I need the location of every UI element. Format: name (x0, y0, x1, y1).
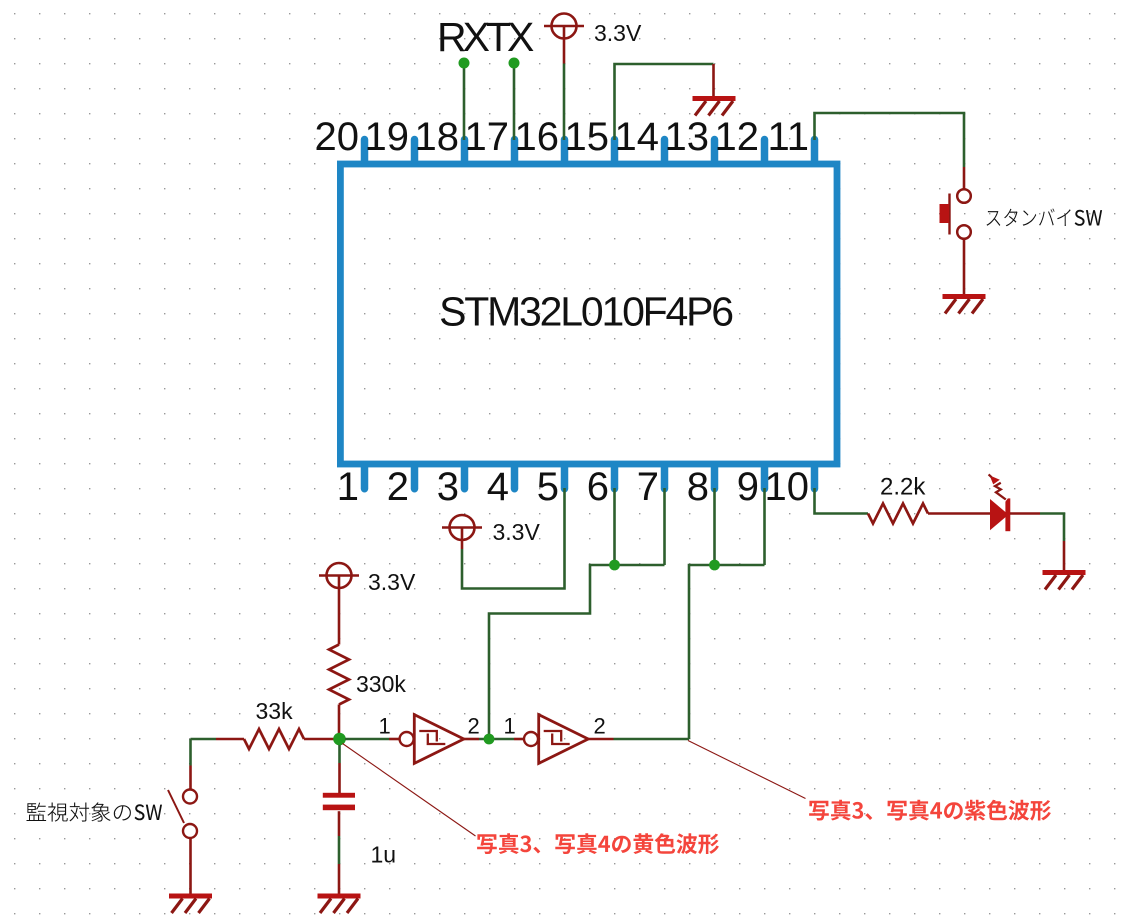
resistor R2 33k (244, 729, 304, 749)
wire ground symbol lead (top right) (712, 64, 715, 96)
svg-text:1u: 1u (371, 842, 397, 868)
junction pins 6-7 (609, 560, 620, 571)
IC U1 pin 13 (top) (711, 140, 719, 162)
junction node B (between gates) (484, 734, 495, 745)
wire C1 to ground (338, 811, 341, 836)
switch S1 monitored switch (168, 790, 197, 839)
ground G3 (LED) (1043, 570, 1086, 590)
svg-text:33k: 33k (256, 698, 294, 724)
svg-text:16: 16 (515, 115, 560, 159)
wire node B to gate2 input (514, 738, 524, 741)
resistor R1 330k (329, 645, 349, 705)
wire 3.3V to pin 5 (462, 488, 565, 589)
wire pin 15 to ground (up and right) (615, 64, 714, 140)
svg-text:2.2k: 2.2k (880, 474, 926, 501)
wire pin 8 down (713, 488, 716, 565)
inverter gate U2B (Schmitt trigger) (524, 715, 588, 764)
power 3.3V supply symbol P3 (to R1 330k) (319, 563, 359, 588)
wire pin 10 to resistor R3 (815, 488, 869, 514)
svg-text:18: 18 (415, 115, 460, 159)
svg-text:12: 12 (715, 115, 760, 159)
IC U1 pin 6 (bottom) (611, 466, 619, 489)
IC U1 pin 2 (bottom) (411, 466, 419, 489)
svg-text:5: 5 (537, 465, 559, 509)
IC U1 pin 14 (top) (661, 140, 669, 162)
svg-text:3.3V: 3.3V (493, 519, 541, 545)
IC U1 pin 17 (top) (511, 140, 519, 162)
wire RX to pin 18 (463, 64, 466, 141)
svg-text:15: 15 (565, 115, 610, 159)
IC U1 pin 11 (top) (811, 140, 819, 162)
junction pins 8-9 (709, 560, 720, 571)
power 3.3V supply symbol P1 (top, to pin 16) (544, 14, 584, 39)
ground G1 (pin 15 net) (693, 96, 736, 116)
svg-text:8: 8 (687, 465, 709, 509)
svg-text:17: 17 (465, 115, 510, 159)
IC U1 pin 20 (top) (361, 140, 369, 162)
IC U1 pin 10 (bottom) (811, 466, 819, 489)
power 3.3V supply symbol P2 (to pin 5) (442, 515, 482, 540)
wire ground lead (LED) (1063, 541, 1066, 570)
svg-text:10: 10 (765, 465, 810, 509)
wire R2 right lead to node A (304, 738, 339, 741)
svg-text:9: 9 (737, 465, 759, 509)
svg-text:13: 13 (665, 115, 710, 159)
IC U1 pin 4 (bottom) (511, 466, 519, 489)
node dot RX (459, 58, 470, 69)
svg-text:20: 20 (315, 115, 360, 159)
IC U1 pin 5 (bottom) (561, 466, 569, 489)
wire down to monitored switch (189, 739, 192, 766)
wire LED1 cathode lead (1010, 512, 1040, 515)
svg-text:4: 4 (487, 465, 509, 509)
IC U1 pin 1 (bottom) (361, 466, 369, 489)
IC U1 pin 9 (bottom) (761, 466, 769, 489)
wire pin 6 down (613, 488, 616, 565)
IC U1 pin 12 (top) (761, 140, 769, 162)
wire standby switch top lead (963, 167, 966, 190)
resistor R3 2.2k (868, 504, 928, 524)
wire pin 7 down (663, 488, 666, 565)
inverter gate U2A (Schmitt trigger) (400, 715, 464, 764)
capacitor C1 (323, 793, 355, 810)
annotation line to 黄色波形 label (343, 744, 476, 837)
node dot TX (509, 58, 520, 69)
IC U1 pin 8 (bottom) (711, 466, 719, 489)
wire node A to capacitor C1 (338, 745, 341, 763)
svg-text:7: 7 (637, 465, 659, 509)
svg-text:3.3V: 3.3V (368, 569, 416, 595)
svg-text:1: 1 (337, 465, 359, 509)
wire pin 9 down (763, 488, 766, 565)
svg-text:6: 6 (587, 465, 609, 509)
label 監視対象のSW (27, 802, 163, 821)
wire supply lead down (461, 540, 464, 549)
ground G5 (capacitor) (318, 894, 361, 914)
wire switch to ground (189, 838, 192, 894)
wire node A to gate1 input (345, 738, 389, 741)
wire pins 6-7 net to inter-gate node (489, 565, 665, 739)
svg-text:STM32L010F4P6: STM32L010F4P6 (439, 289, 732, 335)
push button S2 standby switch (940, 189, 971, 239)
wire gate2 output (588, 738, 613, 741)
svg-text:19: 19 (365, 115, 410, 159)
LED LED1 (989, 474, 1011, 531)
svg-text:1: 1 (504, 714, 516, 739)
IC U1 pin 18 (top) (461, 140, 469, 162)
ground G2 (standby switch) (943, 294, 986, 314)
ground G4 (monitored switch) (169, 894, 212, 914)
wire R3 to LED1 (928, 512, 990, 515)
wire pins 8-9 net to gate2 output (689, 565, 765, 739)
svg-text:1: 1 (379, 714, 391, 739)
wire pin 11 to standby switch (815, 113, 965, 167)
wire TX to pin 17 (513, 64, 516, 141)
wire 3.3V supply lead to pin 16 (563, 39, 566, 64)
svg-text:2: 2 (387, 465, 409, 509)
IC U1 pin 3 (bottom) (461, 466, 469, 489)
wire supply to R1 (338, 588, 341, 645)
svg-text:330k: 330k (356, 671, 406, 697)
wire 33k to node A (horizontal) (191, 738, 217, 741)
annotation line to 紫色波形 label (688, 741, 806, 799)
wire standby switch to ground (963, 239, 966, 294)
IC U1 pin 16 (top) (561, 140, 569, 162)
svg-text:3.3V: 3.3V (594, 20, 642, 46)
label スタンバイSW (987, 209, 1103, 227)
wire R1 to node A (338, 705, 341, 736)
svg-text:2: 2 (594, 714, 606, 739)
svg-text:11: 11 (767, 115, 809, 159)
wire LED to ground (1040, 514, 1064, 542)
wire net 3.3V to pin 16 (563, 64, 566, 141)
IC U1 STM32L010F4P6 body (340, 164, 837, 464)
svg-text:14: 14 (615, 115, 660, 159)
IC U1 pin 15 (top) (611, 140, 619, 162)
IC U1 pin 19 (top) (411, 140, 419, 162)
wire gate1 output to node B (464, 738, 479, 741)
svg-text:RXTX: RXTX (437, 14, 534, 60)
svg-text:2: 2 (468, 714, 480, 739)
IC U1 pin 7 (bottom) (661, 466, 669, 489)
annotation label 写真3、写真4の紫色波形 (809, 800, 1051, 821)
annotation label 写真3、写真4の黄色波形 (477, 833, 719, 854)
svg-text:3: 3 (437, 465, 459, 509)
junction node A (333, 733, 346, 746)
